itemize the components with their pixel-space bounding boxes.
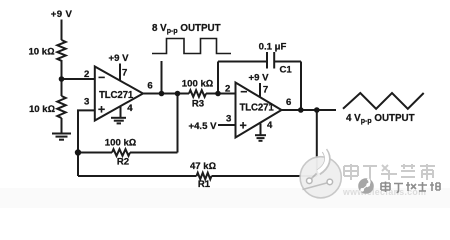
svg-text:8 Vp-p OUTPUT: 8 Vp-p OUTPUT (152, 23, 221, 35)
svg-text:47 kΩ: 47 kΩ (190, 161, 216, 172)
svg-text:2: 2 (225, 84, 230, 95)
svg-text:R3: R3 (192, 99, 204, 110)
svg-text:www.elecfans.com: www.elecfans.com (342, 187, 426, 197)
svg-text:6: 6 (286, 97, 291, 108)
svg-text:4: 4 (267, 120, 273, 131)
svg-text:7: 7 (263, 85, 268, 96)
svg-text:+4.5 V: +4.5 V (188, 121, 217, 132)
svg-text:100 kΩ: 100 kΩ (105, 138, 136, 149)
svg-text:7: 7 (122, 68, 127, 79)
svg-text:+9 V: +9 V (248, 73, 269, 84)
svg-text:+9 V: +9 V (108, 53, 129, 64)
svg-text:C1: C1 (280, 64, 293, 75)
svg-text:10 kΩ: 10 kΩ (29, 104, 55, 115)
svg-text:10 kΩ: 10 kΩ (28, 47, 54, 58)
svg-text:3: 3 (226, 114, 231, 125)
svg-text:R1: R1 (198, 179, 211, 190)
svg-text:TLC271: TLC271 (240, 102, 275, 113)
svg-text:TLC271: TLC271 (99, 90, 134, 101)
svg-text:0.1 μF: 0.1 μF (259, 42, 287, 53)
svg-text:100 kΩ: 100 kΩ (182, 79, 213, 90)
svg-text:3: 3 (84, 97, 89, 108)
svg-text:2: 2 (84, 69, 89, 80)
svg-text:+9 V: +9 V (51, 9, 73, 20)
svg-text:6: 6 (147, 81, 152, 92)
svg-text:4 Vp-p OUTPUT: 4 Vp-p OUTPUT (346, 113, 415, 125)
svg-text:R2: R2 (117, 157, 129, 168)
svg-text:4: 4 (127, 103, 133, 114)
